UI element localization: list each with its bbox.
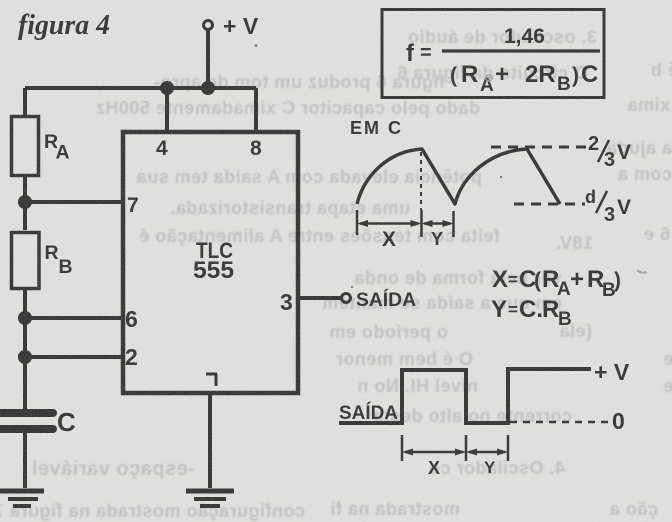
ground under pin1: [186, 491, 234, 506]
ground under C: [0, 491, 44, 506]
dashed line 1/3V level: [514, 203, 585, 206]
wire pin8: [254, 88, 258, 134]
dashed zero level: [510, 421, 608, 424]
wire +V down to rail: [206, 30, 210, 88]
pin 6: [125, 306, 138, 332]
+V power terminal: [204, 13, 259, 39]
node junction pin6: [18, 311, 32, 325]
formula box frame: [382, 10, 604, 98]
label X (EM C): [382, 228, 396, 251]
output square waveform: [339, 369, 591, 423]
label SAIDA: [356, 289, 416, 311]
capacitor voltage waveform: [357, 149, 560, 204]
dimension arrow X (output): [402, 449, 466, 456]
resistor RB: [12, 233, 40, 289]
label 0: [612, 408, 625, 434]
wire pin7: [25, 200, 123, 204]
equation Y = C.RB: [491, 296, 572, 330]
label Y (output): [484, 458, 496, 477]
node junction +V rail: [201, 81, 215, 95]
wire pin4: [165, 88, 169, 134]
node junction pin4 rail: [160, 81, 174, 95]
wire pin1 to ground: [208, 392, 212, 488]
equation X = C(RA+RB): [492, 266, 621, 301]
wire pin2: [25, 355, 123, 359]
pin 4: [156, 137, 168, 160]
node junction pin7: [18, 195, 32, 209]
dimension arrow X (EM C): [357, 220, 422, 227]
dimension ticks X/Y (output): [402, 435, 508, 461]
pin 1: [206, 374, 217, 386]
label SAIDA waveform: [339, 402, 398, 424]
label Y (EM C): [431, 229, 443, 249]
wire +V rail: [25, 86, 256, 90]
pin 8: [250, 137, 262, 160]
mirrored show-through text from reverse page side (decorative): [412, 27, 597, 48]
node junction pin2: [18, 350, 32, 364]
wire RA top: [23, 88, 27, 115]
label +V (waveform): [594, 359, 630, 385]
pin 3: [280, 289, 293, 315]
label RA: [44, 131, 70, 164]
formula f = 1,46 / (RA+2RB)C: [406, 25, 598, 96]
label X (output): [428, 458, 440, 478]
figura 4 caption: [18, 10, 110, 41]
dimension ticks X/Y (EM C): [357, 210, 454, 237]
node SAIDA terminal: [342, 294, 351, 303]
label EM C: [350, 118, 403, 138]
scan artifact circled dot: [486, 75, 492, 81]
dimension arrow Y (output): [466, 449, 508, 456]
dimension arrow Y (EM C): [422, 220, 454, 227]
pin 2: [125, 344, 138, 370]
op-amp U1 TLC555 body: [123, 132, 298, 393]
label C: [57, 407, 76, 437]
wire pin6: [25, 316, 123, 320]
capacitor C: [0, 413, 53, 429]
label 2/3 V: [588, 133, 631, 171]
dashed vertical at first peak: [420, 152, 422, 210]
label RB: [45, 242, 73, 278]
formula fraction bar: [442, 49, 600, 52]
pin 7: [127, 194, 139, 217]
label TLC 555: [193, 238, 234, 284]
dashed line 2/3V level: [491, 146, 588, 149]
label d/3 V: [585, 187, 631, 226]
wire capacitor to ground: [23, 433, 27, 488]
wire RA to RB: [23, 176, 27, 230]
resistor RA: [12, 117, 39, 176]
wire RB to capacitor: [23, 290, 27, 409]
wire pin3 output: [298, 296, 341, 300]
